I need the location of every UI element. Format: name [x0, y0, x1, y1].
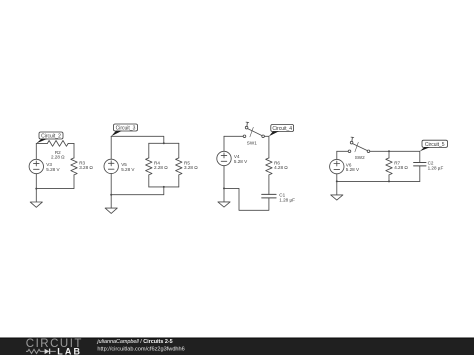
svg-text:juliannaCampbell / Circuits 2-: juliannaCampbell / Circuits 2-5	[96, 339, 172, 345]
svg-text:Circuit_3: Circuit_3	[116, 125, 136, 131]
logo diode	[42, 349, 56, 355]
svg-text:1.28 µF: 1.28 µF	[428, 165, 444, 170]
capacitor C1	[262, 194, 276, 198]
wire V6 bottom	[336, 174, 338, 182]
switch SW2	[348, 137, 370, 153]
voltage source V3	[29, 159, 43, 173]
svg-text:http://circuitlab.com/cf6z2g3f: http://circuitlab.com/cf6z2g3fwdhh6	[97, 346, 184, 352]
wire C1 bottom loop	[224, 188, 269, 210]
ground	[218, 188, 230, 207]
label V6	[346, 162, 360, 172]
svg-text:SW2: SW2	[355, 155, 365, 160]
wire R7 top lead	[388, 151, 390, 158]
svg-text:Circuit_5: Circuit_5	[425, 142, 445, 148]
wire right vertical lower	[36, 175, 74, 189]
wire R4 bottom lead	[148, 175, 150, 187]
wire C2 top lead	[419, 151, 421, 162]
wire top rail left lead	[36, 142, 47, 144]
callout Circuit_5	[420, 140, 448, 151]
label R2	[51, 150, 65, 160]
resistor R4	[146, 158, 152, 175]
svg-text:3.28 Ω: 3.28 Ω	[184, 165, 198, 170]
label C2	[428, 161, 444, 171]
label R4	[154, 160, 168, 170]
svg-text:4.28 Ω: 4.28 Ω	[274, 165, 288, 170]
svg-text:LAB: LAB	[57, 346, 82, 355]
callout Circuit_3	[111, 124, 137, 136]
wire right vertical upper	[73, 143, 75, 158]
label R5	[184, 160, 198, 170]
svg-text:Circuit_4: Circuit_4	[272, 126, 292, 132]
label V4	[234, 154, 248, 164]
svg-text:2.28 Ω: 2.28 Ω	[154, 165, 168, 170]
wire left vertical	[223, 136, 225, 151]
callout Circuit_2	[36, 132, 63, 143]
wire R5 top lead	[178, 143, 180, 158]
ground	[331, 181, 343, 200]
wire parallel bottom bracket	[149, 186, 179, 188]
resistor R3	[71, 158, 77, 175]
wire left vertical (V3 top to top rail)	[35, 143, 37, 159]
resistor R7	[386, 158, 392, 175]
node junction R7 bottom	[388, 180, 390, 182]
wire C2 bottom lead	[419, 166, 421, 182]
svg-text:1.28 µF: 1.28 µF	[279, 197, 295, 202]
svg-text:Circuit_2: Circuit_2	[41, 133, 61, 139]
wire top rail left	[224, 135, 243, 137]
resistor R2	[47, 141, 68, 147]
wire V4 bottom	[223, 166, 225, 189]
wire top rail left	[337, 150, 348, 152]
label R3	[79, 160, 93, 170]
wire switch to corner	[264, 135, 269, 137]
node junction R7 top	[388, 150, 390, 152]
svg-text:5.28 V: 5.28 V	[46, 167, 60, 172]
footer title text	[96, 339, 172, 345]
resistor R6	[266, 158, 272, 175]
wire switch to rail right	[370, 150, 420, 152]
wire bottom rail	[111, 187, 164, 195]
label SW2	[355, 155, 365, 160]
node junction c1	[35, 188, 37, 190]
wire V5 bottom	[110, 174, 112, 195]
wire R7 bottom lead	[388, 175, 390, 182]
label R6	[274, 160, 288, 170]
wire bottom rail	[337, 180, 420, 182]
label SW1	[247, 141, 257, 146]
ground	[30, 189, 42, 208]
label C1	[279, 193, 295, 203]
svg-text:5.28 V: 5.28 V	[346, 167, 360, 172]
voltage source V5	[104, 159, 118, 173]
wire parallel top bracket	[149, 142, 179, 144]
svg-text:3.28 Ω: 3.28 Ω	[79, 165, 93, 170]
capacitor C2	[414, 163, 426, 166]
node junction source bottom	[110, 194, 112, 196]
logo LAB text	[57, 346, 82, 355]
wire R6 to C1	[268, 175, 270, 195]
resistor R5	[176, 158, 182, 175]
label V3	[46, 162, 60, 172]
wire R4 top lead	[148, 143, 150, 158]
ground	[105, 195, 117, 214]
switch SW1	[243, 122, 264, 138]
label V5	[121, 162, 135, 172]
svg-text:SW1: SW1	[247, 141, 257, 146]
wire V3 bottom	[35, 174, 37, 189]
logo resistor zigzag	[26, 349, 42, 353]
voltage source V6	[330, 159, 344, 173]
voltage source V4	[217, 151, 231, 165]
wire top rail	[111, 136, 164, 143]
node junction top	[163, 142, 165, 144]
footer url text	[97, 346, 184, 352]
callout Circuit_4	[269, 125, 294, 137]
wire R5 bottom lead	[178, 175, 180, 187]
label R7	[394, 160, 408, 170]
wire left vertical	[336, 151, 338, 159]
wire top rail right lead	[68, 142, 74, 144]
node junction	[223, 187, 225, 189]
node junction source bottom	[336, 180, 338, 182]
node junction bottom	[163, 186, 165, 188]
logo CIRCUIT text	[26, 338, 83, 350]
svg-text:5.28 V: 5.28 V	[121, 167, 135, 172]
svg-text:4.28 Ω: 4.28 Ω	[394, 165, 408, 170]
wire right vertical upper	[268, 136, 270, 158]
svg-text:2.28 Ω: 2.28 Ω	[51, 155, 65, 160]
wire left vertical	[110, 136, 112, 159]
svg-text:5.28 V: 5.28 V	[234, 159, 248, 164]
